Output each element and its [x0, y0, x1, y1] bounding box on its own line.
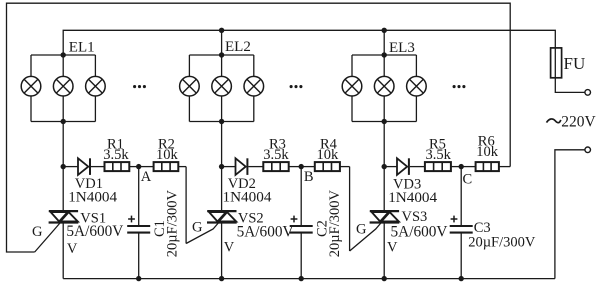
triac VS3 5A/600V: [370, 210, 399, 212]
wire: capacitor C2 to bottom bus: [300, 233, 302, 279]
wire: bottom AC terminal to bottom bus: [555, 150, 585, 279]
lamp EL1.2: [53, 76, 73, 96]
lamp EL2.1: [180, 76, 200, 96]
svg-text:3.5k: 3.5k: [426, 147, 452, 163]
svg-text:5A/600V: 5A/600V: [391, 224, 448, 241]
junction C1 bottom: [136, 276, 141, 281]
wire: stage 3 node to diode VD3: [384, 166, 397, 168]
ellipsis (more lamps): [453, 85, 456, 88]
node stage 3 anode junction: [382, 164, 387, 169]
wire: node A down to capacitor C1: [138, 167, 140, 226]
svg-text:A: A: [141, 169, 152, 185]
svg-text:1N4004: 1N4004: [68, 188, 117, 205]
svg-text:FU: FU: [564, 54, 586, 73]
ellipsis (more lamps): [133, 85, 136, 88]
junction on EL3 bottom rail: [382, 119, 387, 124]
node C: [459, 164, 464, 169]
lamp group EL1: bottom rail: [31, 121, 95, 123]
wire: node B down to capacitor C2: [300, 167, 302, 226]
wire: stage 1 anode drop from lamps to triac VS1: [62, 122, 64, 212]
triac VS1 5A/600V: [49, 210, 78, 212]
svg-text:20µF/300V: 20µF/300V: [468, 235, 536, 251]
fuse FU: [551, 48, 562, 78]
svg-text:10k: 10k: [156, 147, 179, 163]
wire: EL1 lamp 2 leads: [62, 55, 64, 76]
lamp group EL2: bottom rail: [189, 121, 253, 123]
wire: EL2 lamp 2 leads: [221, 55, 223, 76]
wire: bottom bus: [63, 278, 555, 280]
wire: VD2 to R3: [248, 166, 263, 168]
capacitor C3 20uF/300V: [450, 225, 473, 227]
wire: stage 1 node to diode VD1: [63, 166, 78, 168]
svg-text:EL2: EL2: [225, 39, 251, 55]
diode VD1: [78, 158, 88, 175]
lamp EL2.3: [244, 76, 264, 96]
diode VD3: [397, 158, 407, 175]
svg-text:10k: 10k: [476, 144, 499, 160]
resistor R1 3.5k: [105, 162, 130, 171]
wire: stage 2 node to diode VD2: [222, 166, 236, 168]
lamp EL3.1: [342, 76, 362, 96]
svg-text:V: V: [387, 240, 398, 256]
svg-text:EL1: EL1: [69, 40, 95, 56]
capacitor C1 20uF/300V: [127, 225, 150, 227]
wire: R4 output: [340, 166, 350, 168]
svg-text:G: G: [32, 224, 43, 240]
node B: [299, 164, 304, 169]
polarity + of C3: [451, 218, 458, 220]
wire: EL1 lamp 1 leads: [30, 55, 32, 76]
resistor R2 10k: [154, 162, 179, 171]
svg-text:20µF/300V: 20µF/300V: [327, 190, 343, 258]
junction on supply bus at EL2: [219, 28, 224, 33]
junction on EL2 bottom rail: [219, 119, 224, 124]
lamp group EL3: bottom rail: [352, 121, 416, 123]
wire: VD1 to R1: [91, 166, 105, 168]
resistor R5 3.5k: [425, 162, 451, 171]
wire: R6 output: [499, 166, 510, 168]
lamp EL2.2: [212, 76, 232, 96]
wire: VD3 to R5: [410, 166, 425, 168]
wire: capacitor C3 to bottom bus: [460, 233, 462, 279]
wire: EL2 lamp 3 leads: [253, 55, 255, 76]
diode VD2: [236, 158, 246, 175]
svg-text:G: G: [192, 219, 203, 235]
junction on EL1 top rail: [61, 52, 66, 57]
wire: node A to R2: [139, 166, 154, 168]
junction VS3 bottom: [382, 276, 387, 281]
wire: VS3 to bottom bus: [383, 223, 385, 279]
lamp group EL2: top rail: [189, 54, 253, 56]
wire: EL3 lamp 1 leads: [351, 55, 353, 76]
svg-text:1N4004: 1N4004: [223, 188, 272, 205]
wire: EL3 lamp 3 leads: [415, 55, 417, 76]
wire: R4 output down to VS3 gate: [349, 167, 351, 251]
svg-text:EL3: EL3: [389, 40, 415, 56]
wire: R5 to node C: [451, 166, 461, 168]
svg-text:220V: 220V: [561, 113, 596, 130]
wire: R2 output down to VS2 gate: [185, 167, 187, 244]
lamp group EL1: top rail: [31, 54, 95, 56]
wire: EL3 lamp 2 leads: [383, 55, 385, 76]
svg-text:10k: 10k: [317, 147, 340, 163]
node stage 1 anode junction: [61, 164, 66, 169]
svg-text:5A/600V: 5A/600V: [237, 223, 294, 240]
lamp EL3.2: [374, 76, 394, 96]
wire: EL2 lamp 1 leads: [188, 55, 190, 76]
wire: VS2 to bottom bus: [221, 223, 223, 279]
ellipsis (more lamps): [290, 85, 293, 88]
terminal: bottom AC input circle: [585, 147, 591, 153]
junction on EL2 top rail: [219, 52, 224, 57]
junction on supply bus at EL3: [382, 28, 387, 33]
svg-text:1N4004: 1N4004: [388, 189, 437, 206]
wire: R2 output: [178, 166, 186, 168]
svg-text:3.5k: 3.5k: [263, 147, 289, 163]
junction C2 bottom: [299, 276, 304, 281]
wire: EL2 stub from supply bus: [221, 30, 223, 55]
resistor R3 3.5k: [263, 162, 288, 171]
wire: VS1 gate lead from feedback loop: [35, 223, 61, 253]
wire: stage 2 anode drop from lamps to triac VS2: [221, 122, 223, 212]
svg-text:C3: C3: [474, 220, 491, 236]
svg-text:5A/600V: 5A/600V: [66, 223, 123, 240]
wire: EL3 stub from supply bus: [383, 30, 385, 55]
svg-text:V: V: [67, 241, 78, 257]
resistor R4 10k: [315, 162, 340, 171]
wire: R3 to node B: [289, 166, 302, 168]
svg-text:20µF/300V: 20µF/300V: [165, 190, 181, 258]
wire: feedback loop from R6 up, across top, down left side: [7, 3, 511, 252]
junction on EL1 bottom rail: [61, 119, 66, 124]
wire: VS1 to bottom bus: [62, 223, 64, 279]
junction VS2 bottom: [219, 276, 224, 281]
node stage 2 anode junction: [219, 164, 224, 169]
lamp EL3.3: [407, 76, 427, 96]
wire: lamp supply bus to fuse and top AC terminal: [63, 30, 585, 92]
terminal: top AC input circle: [585, 90, 591, 96]
svg-text:C: C: [463, 172, 473, 188]
triac VS2 5A/600V: [207, 210, 236, 212]
lamp EL1.3: [86, 76, 106, 96]
capacitor C2 20uF/300V: [290, 225, 313, 227]
svg-text:B: B: [304, 169, 314, 185]
svg-text:3.5k: 3.5k: [103, 147, 129, 163]
wire: R1 to node A: [129, 166, 138, 168]
lamp EL1.1: [21, 76, 41, 96]
polarity + of C1: [128, 218, 135, 220]
polarity + of C2: [291, 218, 298, 220]
svg-text:V: V: [224, 240, 235, 256]
wire: capacitor C1 to bottom bus: [138, 233, 140, 279]
wire: node C to R6: [461, 166, 475, 168]
wire: node C down to capacitor C3: [460, 167, 462, 226]
wire: node B to R4: [301, 166, 315, 168]
label ~220V: [547, 119, 561, 123]
wire: EL1 lamp 3 leads: [94, 55, 96, 76]
node A: [136, 164, 141, 169]
junction on EL3 top rail: [382, 52, 387, 57]
lamp group EL3: top rail: [352, 54, 416, 56]
svg-text:G: G: [356, 222, 367, 238]
wire: stage 3 anode drop from lamps to triac VS3: [383, 122, 385, 212]
resistor R6 10k: [476, 162, 499, 171]
junction C3 bottom: [459, 276, 464, 281]
